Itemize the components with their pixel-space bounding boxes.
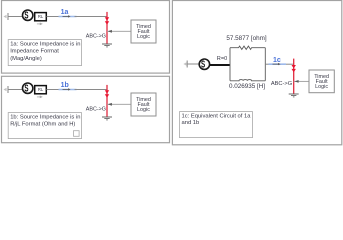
circuit 1a — [3, 9, 156, 66]
svg-text:ABC->G: ABC->G — [86, 34, 106, 40]
svg-text:1b: 1b — [61, 82, 69, 89]
svg-text:ABC->G: ABC->G — [271, 81, 292, 87]
wire from RL box to fault — [47, 89, 61, 91]
control wire from timed fault logic — [107, 30, 131, 32]
direction arrow on wire 1b — [63, 88, 71, 90]
source impedance box RL — [35, 86, 47, 94]
svg-text:and 1b: and 1b — [182, 120, 200, 126]
ground below fault — [102, 117, 112, 120]
svg-text:R/jL Format (Ohm and H): R/jL Format (Ohm and H) — [10, 122, 75, 128]
control wire arrow (points left into fault) — [108, 30, 112, 33]
flow arrow under RL box — [37, 96, 43, 99]
labeled wire segment 1b (blue) — [59, 89, 77, 91]
labeled wire segment 1c (blue) — [269, 63, 287, 65]
svg-text:1c: 1c — [273, 57, 281, 64]
svg-text:1b: Source Impedance is in: 1b: Source Impedance is in — [10, 114, 80, 120]
wire — [75, 16, 108, 18]
wire from terminator to source — [187, 63, 199, 65]
fault F1 (ABC->G) — [105, 12, 109, 44]
source V3 (circle with sine) — [199, 58, 209, 70]
terminator arrow (left node) — [3, 86, 8, 93]
svg-text:0.026935 [H]: 0.026935 [H] — [229, 83, 265, 90]
wire — [286, 63, 294, 65]
flow arrow under RL box — [37, 23, 43, 26]
wire — [75, 89, 108, 91]
wire from terminator to source — [8, 16, 23, 18]
svg-text:(Mag/Angle): (Mag/Angle) — [10, 56, 42, 62]
source impedance box RL — [35, 13, 47, 21]
labeled wire segment 1a (blue) — [59, 16, 77, 18]
fault F2 (ABC->G) — [105, 85, 109, 117]
wire from RL loop to fault — [265, 63, 268, 65]
svg-text:RL: RL — [38, 14, 44, 19]
svg-text:1a: 1a — [61, 9, 69, 16]
svg-text:Logic: Logic — [137, 34, 150, 40]
control wire arrow (points left into fault) — [294, 80, 298, 83]
caption box 1c — [180, 112, 253, 138]
svg-text:Impedance Format: Impedance Format — [10, 49, 59, 55]
panel 1a frame — [2, 1, 170, 74]
terminator arrow (left node) — [3, 13, 8, 20]
direction arrow on wire 1c — [273, 63, 281, 65]
svg-text:Logic: Logic — [315, 84, 328, 90]
wire from terminator to source — [8, 89, 23, 91]
caption box 1a — [8, 40, 81, 66]
thick bus wire from source to RL loop — [210, 64, 231, 66]
source V1 (circle with sine) — [23, 9, 33, 21]
control wire from timed fault logic — [107, 103, 131, 105]
timed fault logic U1 — [131, 20, 156, 43]
direction arrow on wire 1a — [63, 15, 71, 17]
svg-text:S: S — [24, 9, 28, 21]
ground below fault — [102, 44, 112, 47]
svg-text:57.5877 [ohm]: 57.5877 [ohm] — [226, 35, 267, 42]
svg-text:1a: Source Impedance is in: 1a: Source Impedance is in — [10, 41, 80, 47]
svg-text:R=0: R=0 — [217, 56, 227, 62]
left vertical wire — [229, 48, 231, 81]
parallel RL branch — [226, 35, 267, 90]
svg-text:S: S — [24, 82, 28, 94]
circuit 1b — [3, 82, 156, 139]
right vertical wire — [264, 48, 266, 81]
handle square in caption box 1b — [74, 131, 80, 137]
control wire arrow (points left into fault) — [108, 103, 112, 106]
caption box 1b — [8, 113, 81, 139]
fault F3 (ABC->G) — [292, 59, 296, 94]
resistor R1 (top branch) — [230, 46, 265, 49]
svg-text:Logic: Logic — [137, 107, 150, 113]
svg-text:1c: Equivalent Circuit of 1a: 1c: Equivalent Circuit of 1a — [182, 113, 252, 119]
wire from RL box to fault — [47, 16, 61, 18]
terminator arrow (left node) — [183, 61, 187, 68]
inductor L1 (bottom branch) — [230, 80, 265, 81]
svg-text:RL: RL — [38, 87, 44, 92]
source V2 (circle with sine) — [23, 82, 33, 94]
panel 1b frame — [2, 76, 170, 142]
control wire from timed fault logic — [294, 80, 309, 82]
svg-text:ABC->G: ABC->G — [86, 107, 106, 113]
ground below fault — [289, 94, 299, 97]
circuit 1c — [180, 35, 335, 138]
svg-text:S: S — [201, 58, 205, 70]
timed fault logic U3 — [309, 70, 334, 93]
timed fault logic U2 — [131, 93, 156, 116]
panel 1c frame — [172, 1, 341, 145]
